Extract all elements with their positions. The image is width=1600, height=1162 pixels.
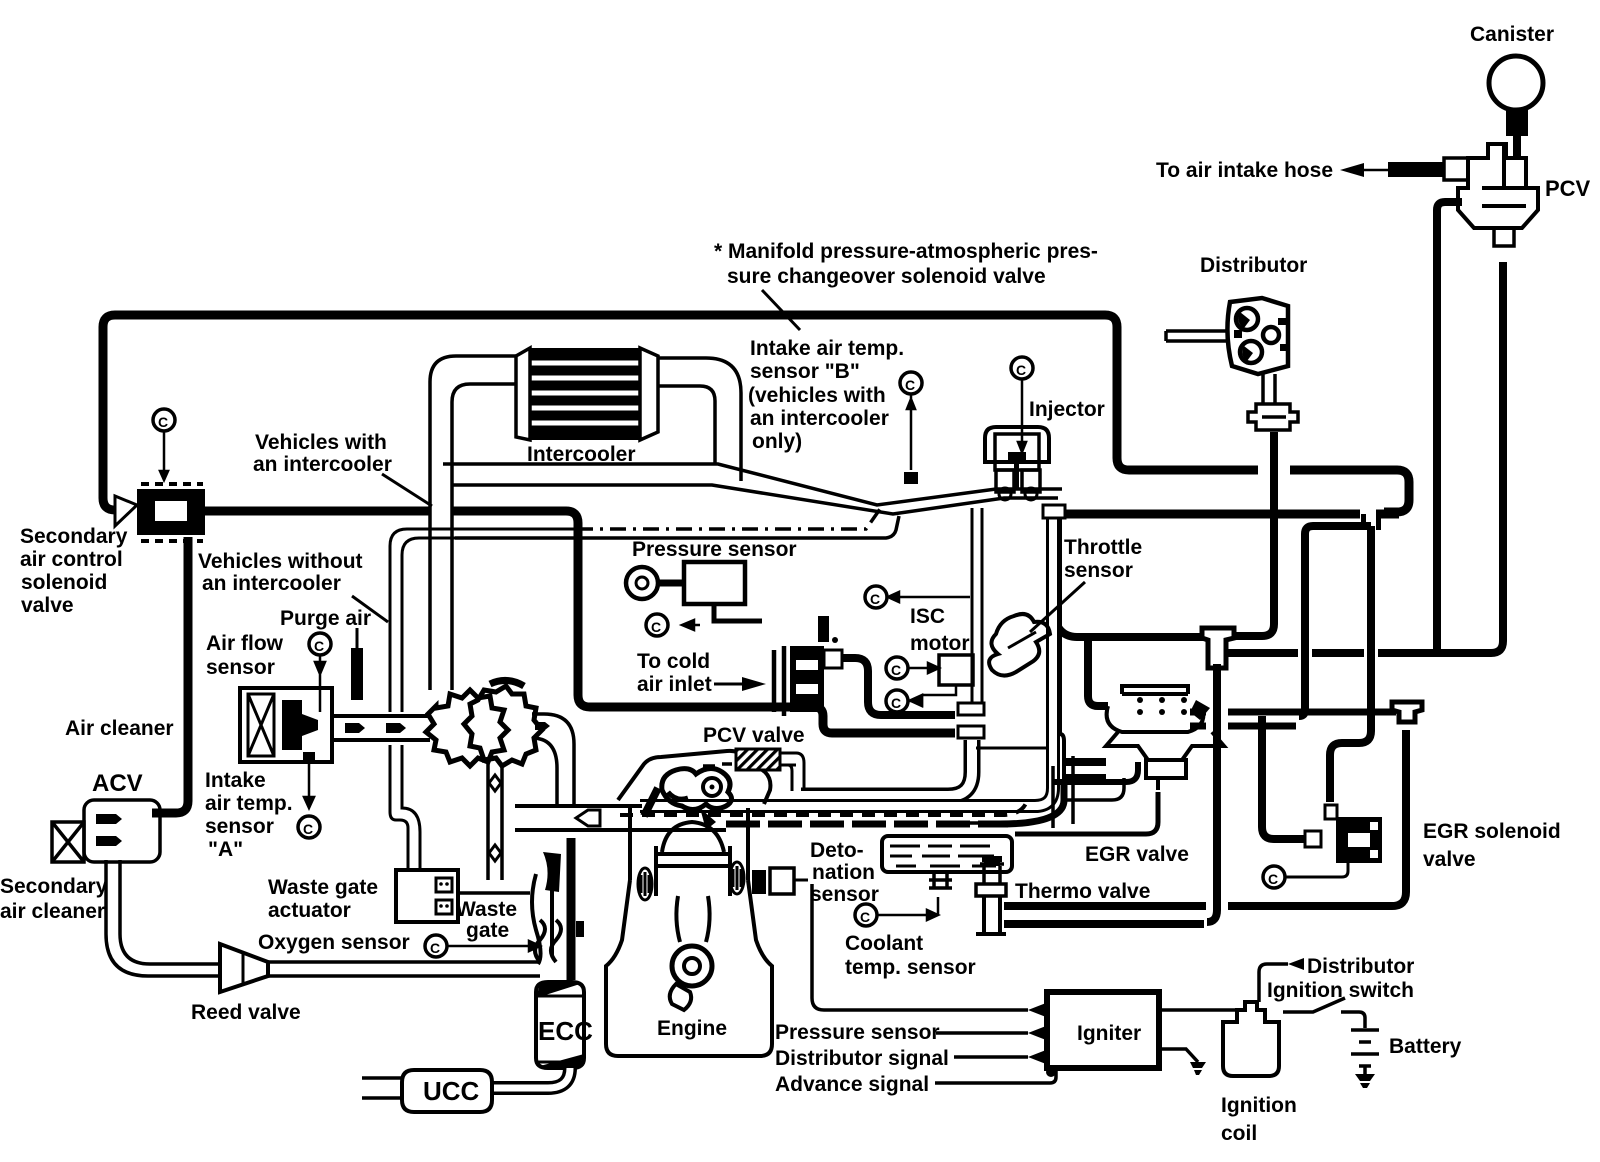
svg-text:sensor: sensor — [205, 815, 274, 838]
svg-text:EGR solenoid: EGR solenoid — [1423, 820, 1561, 843]
detonation sensor — [752, 868, 808, 894]
svg-text:air cleaner: air cleaner — [0, 900, 105, 923]
intercooler right pipe — [658, 358, 741, 481]
svg-text:PCV valve: PCV valve — [703, 724, 805, 747]
svg-text:motor: motor — [910, 632, 970, 655]
svg-text:"A": "A" — [208, 838, 243, 861]
wire: detonation to igniter — [812, 884, 1028, 1010]
IAT sensor B — [900, 372, 922, 484]
throttle body base line — [976, 747, 1046, 750]
svg-text:C: C — [891, 662, 901, 678]
svg-text:Secondary: Secondary — [20, 525, 128, 548]
svg-text:C: C — [158, 414, 168, 430]
svg-text:ISC: ISC — [910, 605, 945, 628]
svg-text:Intercooler: Intercooler — [527, 443, 636, 466]
svg-text:Distributor: Distributor — [1200, 254, 1307, 277]
svg-text:C: C — [1016, 362, 1026, 378]
svg-text:To cold: To cold — [637, 650, 710, 673]
svg-text:Battery: Battery — [1389, 1035, 1462, 1058]
EGR valve under-plumbing — [950, 756, 1158, 834]
wire: T1262 stem to EGR solenoid left port — [1262, 716, 1305, 839]
asterisk marker for manifold pressure solenoid valve — [832, 637, 838, 643]
svg-text:solenoid: solenoid — [21, 571, 107, 594]
svg-text:an intercooler: an intercooler — [750, 407, 889, 430]
wire: distributor line down to T junction — [1262, 460, 1286, 480]
ACV assembly — [52, 800, 160, 862]
svg-text:Ignition switch: Ignition switch — [1267, 979, 1414, 1002]
P2 connector flanges — [958, 703, 984, 715]
wire: EGR line left arm — [1077, 633, 1204, 641]
wire: main vacuum loop top — [103, 315, 1409, 512]
purge air tube — [356, 628, 359, 700]
ignition coil — [1223, 1002, 1279, 1076]
svg-text:C: C — [870, 591, 880, 607]
intake duct bundle — [443, 464, 1062, 538]
svg-text:Secondary: Secondary — [0, 875, 108, 898]
coil to distributor arrow — [1259, 964, 1288, 1002]
svg-text:C: C — [314, 638, 324, 654]
turbo outlet pipe to runner — [532, 714, 574, 806]
PCV valve — [736, 749, 804, 791]
wire: solenoid valve down to ACV — [152, 537, 188, 813]
wire: solenoid valve output to inner box — [205, 511, 1399, 733]
igniter ground — [1159, 1049, 1198, 1062]
svg-text:C: C — [905, 377, 915, 393]
svg-text:Air flow: Air flow — [206, 632, 284, 655]
svg-text:C: C — [303, 821, 313, 837]
svg-text:Air cleaner: Air cleaner — [65, 717, 174, 740]
junction T1406 — [1392, 702, 1422, 722]
pipe: PCV hose outline pipe down and left — [801, 740, 972, 796]
svg-text:C: C — [1268, 871, 1278, 887]
svg-text:(vehicles with: (vehicles with — [748, 384, 886, 407]
svg-text:Pressure sensor: Pressure sensor — [632, 538, 797, 561]
svg-text:Purge air: Purge air — [280, 607, 371, 630]
svg-text:C: C — [651, 619, 661, 635]
EGR valve — [1106, 686, 1224, 790]
actuator elbow pipe up — [390, 529, 577, 870]
svg-text:valve: valve — [1423, 848, 1476, 871]
engine head — [618, 751, 770, 804]
svg-text:Waste: Waste — [456, 898, 517, 921]
svg-text:air temp.: air temp. — [205, 792, 293, 815]
svg-text:coil: coil — [1221, 1122, 1257, 1145]
ignition switch + battery — [1283, 998, 1379, 1074]
svg-text:Ignition: Ignition — [1221, 1094, 1297, 1117]
svg-text:C: C — [430, 940, 440, 956]
svg-text:air control: air control — [20, 548, 123, 571]
to cold air inlet fitting (manifold pressure changeover solenoid valve) — [714, 616, 842, 716]
igniter output to coil — [1159, 1008, 1243, 1012]
svg-text:sensor: sensor — [1064, 559, 1133, 582]
svg-text:air inlet: air inlet — [637, 673, 712, 696]
wire: D vertical from PCV left — [1437, 202, 1462, 649]
svg-text:sensor "B": sensor "B" — [750, 360, 860, 383]
igniter inputs — [936, 1003, 1046, 1064]
svg-text:C: C — [891, 695, 901, 711]
svg-text:ECC: ECC — [538, 1016, 593, 1046]
svg-text:temp. sensor: temp. sensor — [845, 956, 976, 979]
engine block — [606, 808, 772, 1056]
svg-text:EGR valve: EGR valve — [1085, 843, 1189, 866]
wire: right arm to corner E — [1228, 262, 1503, 653]
reed valve — [220, 944, 268, 992]
svg-text:Engine: Engine — [657, 1017, 727, 1040]
white flow arrow — [576, 810, 600, 826]
svg-text:gate: gate — [466, 919, 509, 942]
svg-text:Coolant: Coolant — [845, 932, 923, 955]
EGR solenoid valve — [1325, 805, 1382, 863]
oxygen sensor symbol — [535, 920, 561, 962]
svg-text:Reed valve: Reed valve — [191, 1001, 301, 1024]
ECC — [536, 982, 584, 1068]
svg-text:sensor: sensor — [810, 883, 879, 906]
svg-text:UCC: UCC — [423, 1076, 480, 1106]
svg-text:Waste gate: Waste gate — [268, 876, 378, 899]
ISC motor group — [865, 586, 973, 712]
pipe: ACV to reed valve — [106, 860, 220, 976]
svg-text:only): only) — [752, 430, 802, 453]
svg-text:C: C — [860, 909, 870, 925]
distributor check valve — [1248, 404, 1298, 430]
svg-text:* Manifold pressure-atmospheri: * Manifold pressure-atmospheric pres- — [714, 240, 1098, 263]
svg-text:Thermo valve: Thermo valve — [1015, 880, 1150, 903]
solenoid valve (secondary air control) — [115, 409, 205, 541]
throttle linkage — [989, 614, 1050, 676]
to air intake hose arrow — [1340, 158, 1468, 180]
svg-text:an intercooler: an intercooler — [202, 572, 341, 595]
flange at P1 top — [1043, 505, 1065, 518]
svg-text:an intercooler: an intercooler — [253, 453, 392, 476]
pointer lines — [352, 290, 800, 622]
svg-text:Advance signal: Advance signal — [775, 1073, 929, 1096]
air flow sensor — [240, 688, 430, 762]
canister — [1489, 56, 1543, 158]
svg-text:Distributor: Distributor — [1307, 955, 1414, 978]
svg-text:Pressure sensor: Pressure sensor — [775, 1021, 940, 1044]
svg-text:nation: nation — [812, 861, 875, 884]
injector — [985, 357, 1049, 500]
wire: exhaust downpipe to ECC — [567, 838, 576, 980]
circled C purge — [309, 633, 331, 655]
svg-text:Distributor signal: Distributor signal — [775, 1047, 949, 1070]
wire: thermo valve lines to right riser — [1004, 730, 1406, 924]
waste gate flap — [532, 874, 552, 964]
thermo valve — [976, 858, 1006, 934]
svg-text:Oxygen sensor: Oxygen sensor — [258, 931, 410, 954]
main runner from turbo — [515, 806, 726, 830]
svg-text:Igniter: Igniter — [1077, 1022, 1141, 1045]
svg-text:To air intake hose: To air intake hose — [1156, 159, 1333, 182]
dashed centerline — [620, 801, 1027, 815]
inner panel content: pressure sensor — [626, 562, 762, 636]
svg-text:Throttle: Throttle — [1064, 536, 1142, 559]
waste gate actuator — [396, 870, 530, 922]
pipe: reed valve to exhaust — [268, 962, 540, 976]
svg-text:Injector: Injector — [1029, 398, 1105, 421]
intercooler — [516, 348, 658, 440]
svg-text:sure changeover solenoid valve: sure changeover solenoid valve — [727, 265, 1046, 288]
svg-text:ACV: ACV — [92, 770, 143, 797]
pipe: intake runner to throttle — [640, 518, 1053, 806]
PCV valve assembly (canister) — [1458, 144, 1538, 246]
coolant jacket — [882, 836, 1012, 888]
svg-text:PCV: PCV — [1545, 176, 1591, 201]
turbo assembly — [426, 680, 542, 766]
svg-text:valve: valve — [21, 594, 74, 617]
IAT-A arrow — [303, 752, 315, 762]
distributor top — [1227, 298, 1288, 374]
svg-text:sensor: sensor — [206, 656, 275, 679]
pipe ECC->UCC — [492, 1068, 570, 1088]
waste gate pipe down — [488, 764, 502, 880]
pipe: outline stem from T down, branch B and C — [1361, 512, 1381, 530]
svg-text:actuator: actuator — [268, 899, 351, 922]
svg-text:Deto-: Deto- — [810, 839, 864, 862]
svg-text:Canister: Canister — [1470, 23, 1554, 46]
UCC — [362, 1070, 492, 1112]
svg-text:Vehicles with: Vehicles with — [255, 431, 387, 454]
junction T1216 — [1202, 628, 1234, 922]
wire: throttle elbow to EGR left lines — [1052, 598, 1108, 778]
intercooler left pipe + riser — [432, 498, 451, 526]
igniter — [1047, 992, 1159, 1068]
svg-text:Intake air temp.: Intake air temp. — [750, 337, 904, 360]
wire: ISC valve elbow to P2 connector — [842, 658, 955, 715]
wire: EGR valve right lines — [1190, 712, 1396, 726]
svg-text:Vehicles without: Vehicles without — [198, 550, 363, 573]
svg-text:Intake: Intake — [205, 769, 266, 792]
throttle sensor pipes P2 upper — [972, 508, 982, 703]
engine internals — [656, 822, 730, 1010]
circled C waste gate — [425, 935, 447, 957]
